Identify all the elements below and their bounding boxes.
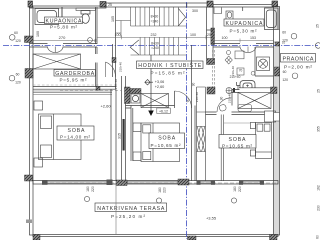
wall center soba top: [126, 106, 175, 162]
svg-text:180: 180: [158, 187, 162, 193]
svg-text:KUPAONICA: KUPAONICA: [46, 18, 83, 24]
door hodnik arc: [106, 62, 116, 77]
counter line right: [239, 87, 271, 89]
wall bathroom right: [95, 7, 97, 44]
svg-text:210×40: 210×40: [125, 87, 129, 97]
nightstand right b: [250, 150, 255, 156]
wall right soba top: [206, 112, 265, 115]
pier dark bottom wall: [116, 180, 127, 186]
wall right exterior: [274, 7, 280, 236]
terrace divider line: [115, 186, 117, 235]
chimney mid-right: [207, 1, 213, 7]
hatch L vertical: [125, 87, 131, 104]
hatch bathroom-right wall lower: [211, 28, 215, 45]
column circle: [131, 94, 140, 103]
svg-text:SOBA: SOBA: [68, 128, 86, 134]
label SOBA left: [57, 126, 94, 140]
stair risers upper flight: [131, 7, 179, 26]
nightstand right a: [250, 123, 255, 129]
door right bathroom: [240, 47, 256, 53]
svg-text:=240: =240: [151, 20, 159, 24]
svg-text:60: 60: [282, 31, 286, 35]
partition shower: [61, 7, 63, 18]
svg-text:210×40: 210×40: [195, 92, 199, 102]
wall praonica bottom: [232, 90, 240, 106]
svg-text:120: 120: [15, 81, 21, 85]
circle small wc: [251, 71, 255, 75]
tick dark: [233, 88, 235, 92]
svg-text:10: 10: [282, 41, 286, 45]
stair landing lines: [116, 21, 131, 38]
shelf counter: [76, 8, 95, 11]
sliding leaf dark: [123, 119, 125, 151]
wall hatch left piece3: [25, 175, 33, 181]
svg-text:P=5,95 m²: P=5,95 m²: [60, 78, 87, 83]
washbasin right: [226, 11, 233, 20]
toilet WC right: [240, 81, 255, 89]
svg-text:60: 60: [316, 235, 320, 239]
svg-text:60: 60: [14, 31, 18, 35]
door gap right wall: [274, 30, 279, 43]
hatch right wall b: [271, 87, 278, 94]
svg-text:=240: =240: [151, 46, 159, 50]
wall hatch left piece1: [25, 36, 34, 43]
dim 180/220 center pair: [156, 187, 166, 203]
svg-text:25: 25: [108, 3, 112, 7]
svg-text:SOBA: SOBA: [229, 137, 247, 143]
label NATKRIVENA TERASA: [95, 203, 167, 219]
dresser line: [33, 91, 112, 95]
walking arrow head: [148, 111, 154, 117]
axis bubble right end: [315, 43, 320, 49]
svg-text:120: 120: [15, 39, 21, 43]
svg-text:PRAONICA: PRAONICA: [283, 56, 314, 62]
svg-text:8×30: 8×30: [151, 42, 159, 46]
bathtub: [35, 9, 59, 25]
wall hatch left piece2: [25, 69, 33, 79]
label KUPAONICA right: [224, 19, 264, 34]
wall top right (bathroom): [213, 5, 278, 8]
svg-text:NATKRIVENA TERASA: NATKRIVENA TERASA: [97, 206, 165, 212]
window slider center soba: [128, 181, 179, 184]
wall top center (stair): [106, 3, 213, 7]
svg-text:220: 220: [238, 186, 242, 192]
svg-text:90: 90: [220, 97, 224, 101]
svg-text:GARDEROBA: GARDEROBA: [55, 71, 95, 77]
door left bathroom: [48, 47, 64, 53]
walking line: [150, 55, 152, 111]
cabinet line: [224, 122, 250, 124]
shaft rect: [265, 111, 276, 122]
svg-text:+2,60: +2,60: [155, 85, 165, 89]
node circle small: [88, 38, 93, 43]
dashes gray: [60, 90, 121, 92]
hatch right wall c: [276, 42, 280, 46]
jamb right slider b: [211, 181, 215, 185]
jamb left slider a: [42, 180, 48, 185]
node circle left2: [9, 75, 15, 81]
bed right soba: [256, 123, 272, 159]
terrace bottom edge: [33, 235, 278, 237]
svg-text:220: 220: [163, 187, 167, 193]
nightstand top: [34, 101, 43, 110]
wall right bathroom bottom: [213, 44, 274, 48]
svg-text:180: 180: [233, 186, 237, 192]
svg-text:210+40: 210+40: [119, 62, 123, 72]
bowtie door 2: [202, 127, 205, 152]
svg-text:90: 90: [191, 83, 195, 87]
svg-text:100: 100: [222, 36, 228, 40]
svg-text:P=10,65 m²: P=10,65 m²: [151, 143, 181, 148]
wall bottom rooms: [33, 181, 278, 185]
pier garderoba corner: [96, 87, 100, 91]
svg-text:60: 60: [16, 72, 20, 76]
terrace top dashed line: [44, 182, 278, 184]
jamb right slider a: [197, 181, 201, 185]
drain circle cross: [226, 88, 232, 94]
level marker diamond: [145, 80, 153, 85]
pier party wall bottom: [178, 179, 189, 185]
jamb right slider c: [239, 181, 243, 185]
pier corridor wall: [112, 58, 116, 63]
hatch L horizontal: [130, 89, 141, 94]
svg-text:232: 232: [151, 33, 157, 37]
svg-text:100: 100: [36, 31, 40, 37]
svg-text:220: 220: [91, 186, 95, 192]
dim 180/220 right pair: [231, 186, 242, 203]
wall stair-south pair: [122, 76, 126, 181]
svg-text:210×40: 210×40: [114, 79, 118, 89]
bowtie door 1: [197, 127, 200, 152]
svg-text:+6,12: +6,12: [159, 109, 168, 113]
stair break chevron left: [130, 40, 139, 55]
svg-text:180: 180: [86, 186, 90, 192]
chimney top-right: [272, 1, 278, 7]
dim chain right: [316, 24, 320, 239]
wall hodnik left: [96, 47, 98, 87]
stair left wall: [113, 7, 116, 89]
wall tick low: [26, 220, 32, 224]
label KUPAONICA left: [45, 17, 83, 30]
node circle right: [291, 33, 297, 39]
svg-text:+3,06: +3,06: [155, 80, 165, 84]
hatch pier right2: [207, 87, 215, 94]
label HODNIK I STUBISTE: [137, 61, 204, 76]
svg-text:SOBA: SOBA: [158, 136, 176, 142]
svg-text:270: 270: [59, 35, 66, 40]
svg-text:315: 315: [118, 133, 122, 139]
svg-text:HODNIK I STUBIŠTE: HODNIK I STUBIŠTE: [138, 62, 202, 69]
svg-text:162: 162: [317, 185, 320, 191]
wall praonica: [255, 47, 274, 76]
axis horizontal Y: [3, 45, 318, 47]
cabinet right corridor a: [235, 51, 244, 59]
niche shower: [214, 8, 222, 14]
window right wall gap: [274, 113, 279, 122]
chimney mid-left: [100, 2, 106, 8]
wardrobe X right: [238, 93, 271, 109]
stair risers lower flight: [140, 38, 178, 56]
shoe cabinet: [238, 105, 252, 112]
svg-text:210×40: 210×40: [228, 93, 232, 103]
bed center soba: [141, 123, 180, 162]
side table center: [133, 123, 141, 132]
svg-text:P=10,65 m²: P=10,65 m²: [222, 144, 252, 149]
svg-text:105: 105: [111, 16, 115, 22]
toilet WC left: [81, 11, 90, 24]
door right soba: [217, 98, 231, 112]
wall axis left (bathroom bottom): [30, 44, 98, 48]
stair break chevron right: [178, 9, 185, 26]
wardrobe X left: [33, 54, 81, 69]
dim line right bath: [213, 39, 274, 43]
label GARDEROBA: [54, 70, 96, 83]
door leaf right soba: [219, 104, 227, 112]
dashed shaft lines: [213, 50, 215, 87]
cabinet right corridor b: [237, 68, 244, 75]
bed left soba: [39, 114, 82, 160]
svg-text:300: 300: [192, 9, 198, 13]
svg-text:P=5,30 m²: P=5,30 m²: [230, 29, 257, 34]
door handle circle: [227, 51, 231, 55]
washing machine: [257, 57, 270, 71]
svg-text:25: 25: [207, 33, 211, 37]
svg-text:+2,60: +2,60: [100, 103, 111, 108]
svg-text:+3,55: +3,55: [206, 216, 217, 221]
wall soba1 right: [111, 89, 116, 180]
wardrobe niche lines: [197, 87, 206, 181]
dim line mid: [97, 35, 213, 39]
stair upper flight bottom edge: [131, 25, 187, 27]
hatch right wall a: [275, 67, 280, 76]
wall right soba inner: [221, 115, 223, 182]
label PRAONICA: [281, 54, 316, 71]
svg-text:230: 230: [317, 205, 320, 211]
wall garderoba bottom: [33, 87, 116, 90]
svg-text:210+40: 210+40: [230, 75, 241, 79]
node circle left: [9, 35, 15, 41]
axis vertical X: [186, 2, 188, 239]
svg-text:25: 25: [316, 24, 320, 28]
window sliders right soba: [200, 181, 211, 184]
svg-text:100: 100: [115, 33, 121, 37]
dim 180/220 left pair: [84, 186, 95, 202]
svg-text:P=2,00 m²: P=2,00 m²: [284, 64, 312, 70]
wall right bathroom left: [207, 7, 214, 59]
post bottom-left: [33, 235, 40, 240]
wall corner praonica: [237, 82, 241, 90]
svg-text:355: 355: [317, 126, 320, 132]
jamb left slider b: [107, 180, 113, 186]
X-box shaft: [141, 94, 169, 108]
door arc center soba: [175, 91, 192, 108]
hatch pier hodnik right: [207, 59, 215, 65]
svg-text:153: 153: [250, 36, 256, 40]
svg-text:25: 25: [317, 89, 320, 93]
svg-text:P=14,00 m²: P=14,00 m²: [60, 135, 90, 140]
label SOBA right: [219, 135, 256, 149]
svg-text:KUPAONICA: KUPAONICA: [226, 21, 264, 27]
node circle right2: [292, 73, 298, 79]
stair lower flight bottom edge: [131, 54, 187, 56]
svg-text:100: 100: [190, 33, 196, 37]
jamb right slider d: [260, 181, 264, 185]
svg-text:8×30: 8×30: [151, 15, 159, 19]
post bottom-right: [270, 235, 278, 240]
svg-text:90: 90: [186, 99, 190, 103]
label SOBA center: [149, 133, 185, 149]
wall left exterior: [30, 7, 34, 235]
svg-text:60: 60: [283, 70, 287, 74]
post bottom-center: [188, 236, 197, 240]
nightstand bottom: [34, 158, 43, 167]
text P=6,12: [157, 108, 171, 114]
bathtub right: [265, 8, 279, 30]
partition sink: [242, 7, 244, 11]
wall top left (bathroom): [30, 6, 107, 8]
svg-text:70: 70: [239, 69, 243, 73]
dim 270: [33, 39, 96, 43]
window slider left soba: [44, 181, 107, 184]
svg-text:P=5,80 m²: P=5,80 m²: [50, 25, 77, 30]
party wall: [187, 3, 195, 181]
svg-text:120: 120: [282, 78, 288, 82]
svg-text:P=15,85 m²: P=15,85 m²: [151, 71, 185, 76]
chimney top-left: [28, 1, 33, 7]
drain clover: [225, 56, 232, 64]
